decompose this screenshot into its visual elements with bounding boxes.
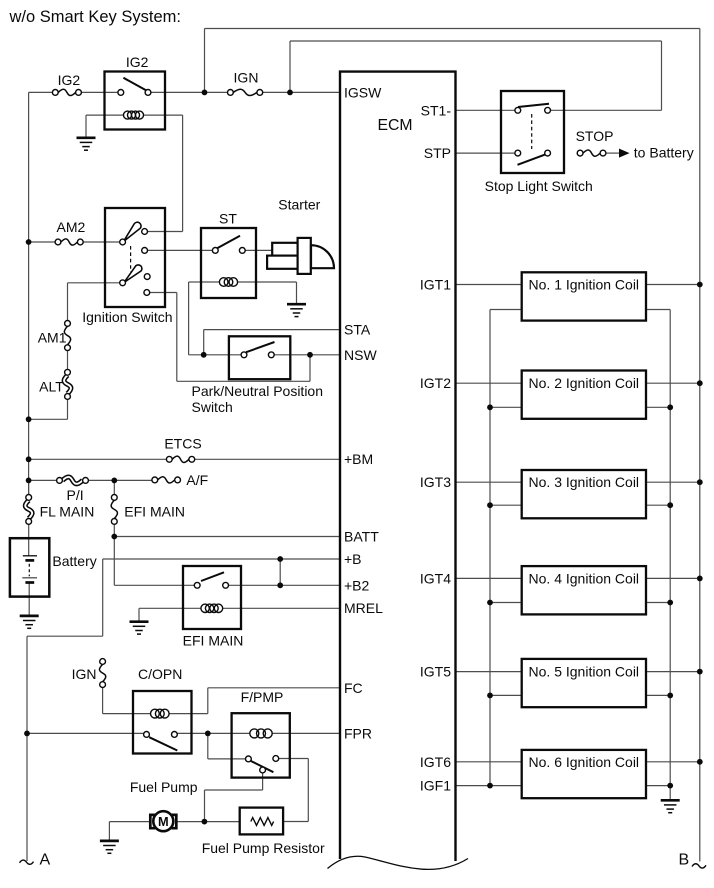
wire top loop from IGN junction to right bus [205, 29, 700, 93]
svg-text:No. 4 Ignition Coil: No. 4 Ignition Coil [529, 570, 640, 586]
label No. 3 Ignition Coil [529, 474, 640, 490]
svg-text:IGN: IGN [234, 70, 259, 86]
wire main IG line y=92 [29, 91, 339, 93]
wire AM1 to ALT [67, 351, 69, 370]
ignition switch lower contacts [120, 274, 150, 296]
wire ECM ST1- to Stop Light Switch [456, 109, 516, 111]
svg-text:IGT6: IGT6 [420, 754, 451, 770]
svg-text:IGT2: IGT2 [420, 375, 451, 391]
wire +B2 line [114, 584, 339, 586]
Ignition Switch box [105, 208, 165, 307]
ECM pin NSW [344, 347, 377, 363]
ECM pin MREL [344, 600, 383, 616]
ECM pin IGT2 [420, 375, 451, 391]
junction IGN right [287, 90, 293, 96]
ECM pin IGT4 [420, 570, 451, 586]
svg-text:FL MAIN: FL MAIN [40, 504, 95, 520]
ECM pin IGT1 [420, 277, 451, 293]
label fuse AM2 [57, 219, 86, 235]
label IG2 relay [126, 54, 149, 70]
label node B [679, 852, 690, 869]
C/OPN relay box [133, 691, 192, 754]
junction IGF bus coil 2 [487, 404, 493, 410]
junction right bus IGT1 [697, 282, 703, 288]
label fuse IG2 [58, 72, 81, 88]
wire IGN-fuse branch up to ST1- loop [290, 41, 662, 110]
svg-text:No. 3 Ignition Coil: No. 3 Ignition Coil [529, 474, 640, 490]
wire STOP fuse to arrow [606, 152, 620, 154]
wire No.3 coil to right bus [646, 481, 700, 483]
svg-text:Park/Neutral Position: Park/Neutral Position [192, 383, 324, 399]
svg-text:IGT5: IGT5 [420, 664, 451, 680]
wire ECM IGT4 to No.4 coil [456, 577, 522, 579]
svg-text:Ignition Switch: Ignition Switch [82, 309, 172, 325]
dashed link stop light switch [531, 114, 533, 149]
junction right bus IGT6 [697, 759, 703, 765]
stop light switch upper pole ST1- [515, 104, 551, 113]
svg-text:w/o Smart Key System:: w/o Smart Key System: [9, 8, 181, 26]
label node A [40, 852, 51, 869]
svg-text:IGN: IGN [72, 666, 97, 682]
wire fuel pump to resistor [177, 821, 239, 823]
svg-text:IGT3: IGT3 [420, 474, 451, 490]
fuse IGN top [228, 89, 263, 95]
junction ETCS [26, 456, 32, 462]
label Starter [278, 197, 320, 213]
ST relay coil [219, 278, 237, 287]
ECM pin STP [424, 145, 451, 161]
label No. 4 Ignition Coil [529, 570, 640, 586]
wire ECM IGT5 to No.5 coil [456, 671, 522, 673]
F/PMP relay coil [250, 729, 272, 738]
svg-text:ST1-: ST1- [421, 102, 452, 118]
wire ECM IGT3 to No.3 coil [456, 481, 522, 483]
wire EFI MAIN relay coil to ground [139, 608, 201, 620]
svg-text:FPR: FPR [344, 725, 372, 741]
F/PMP relay box [232, 713, 290, 777]
ECM pin +B [344, 551, 362, 567]
EFI MAIN relay switch [194, 572, 228, 588]
wire ST coil left to STA node [189, 282, 242, 355]
junction IGN left [202, 90, 208, 96]
svg-text:IGSW: IGSW [344, 84, 382, 100]
label EFI MAIN relay [183, 632, 244, 648]
title w/o Smart Key System [9, 8, 181, 26]
dashed link ignition switch [130, 246, 132, 272]
wire EFI MAIN fuse drop [113, 480, 115, 494]
wire ECM STP to Stop Light Switch [456, 152, 516, 154]
stop light switch lower pole STP [515, 150, 551, 165]
fuse EFI MAIN [111, 495, 117, 525]
label fuse EFI MAIN [124, 504, 185, 520]
ECM pin +BM [344, 451, 373, 467]
ECM pin FC [344, 680, 363, 696]
junction after C/OPN [205, 731, 211, 737]
svg-text:ECM: ECM [377, 117, 412, 134]
wire ignition switch to ST relay [148, 249, 213, 251]
label C/OPN [138, 666, 182, 682]
label fuse AM1 [38, 329, 67, 345]
No. 5 Ignition Coil box [522, 659, 646, 707]
wire IGN fuse to C/OPN coil [103, 688, 151, 714]
junction P/I left [26, 478, 32, 484]
svg-text:EFI MAIN: EFI MAIN [183, 632, 244, 648]
fuse IGN lower [99, 659, 105, 688]
node A break [20, 860, 34, 864]
svg-text:No. 1 Ignition Coil: No. 1 Ignition Coil [529, 277, 640, 293]
label No. 5 Ignition Coil [529, 664, 640, 680]
IG2 relay coil [124, 111, 144, 119]
node B break [692, 864, 706, 868]
fuel pump resistor box [240, 808, 283, 835]
ECM pin ST1- [421, 102, 452, 118]
wire No.2 coil to right bus [646, 382, 700, 384]
junction A/F branch [111, 478, 117, 484]
wire battery feed [28, 524, 30, 556]
wire IG2 coil left to ground [86, 115, 123, 136]
wire EFI MAIN fuse to BATT and +B2 [113, 524, 115, 585]
junction IGF bus coil 6 [487, 783, 493, 789]
junction +B [277, 556, 283, 562]
wire F/PMP switch feed [208, 733, 246, 759]
wire ECM IGT1 to No.1 coil [456, 284, 522, 286]
ground EFI MAIN relay [130, 622, 149, 634]
svg-text:Battery: Battery [52, 553, 96, 569]
junction fuel line left [24, 731, 30, 737]
wire coil ground bus [669, 310, 671, 800]
ignition switch lower wedge ST [124, 265, 142, 283]
svg-text:Starter: Starter [278, 197, 320, 213]
wire ignition switch AM1 branch [68, 283, 120, 321]
junction ALT bus [26, 416, 32, 422]
wire No.1 coil to right bus [646, 284, 700, 286]
wire park/neutral switch to ECM NSW [274, 354, 339, 356]
fuse FL MAIN [25, 495, 32, 525]
svg-text:EFI MAIN: EFI MAIN [124, 504, 185, 520]
C/OPN relay switch [144, 732, 178, 751]
svg-text:IGT4: IGT4 [420, 570, 451, 586]
ST relay box [201, 228, 256, 298]
label ST [219, 211, 237, 227]
svg-text:STA: STA [344, 322, 371, 338]
label Park/Neutral Position Switch [192, 383, 324, 415]
junction right bus IGT2 [697, 380, 703, 386]
junction +B2 [277, 582, 283, 588]
label Stop Light Switch [485, 178, 593, 194]
wire ST relay to starter [245, 249, 272, 251]
wire BATT line [114, 536, 339, 538]
wire F/PMP contact to resistor [279, 759, 309, 822]
svg-text:AM2: AM2 [57, 219, 86, 235]
svg-text:FC: FC [344, 680, 363, 696]
arrow to Battery [620, 149, 629, 157]
wire ECM IGT2 to No.2 coil [456, 382, 522, 384]
junction IGF bus coil 3 [487, 502, 493, 508]
wire No.1 coil IGF pin [490, 309, 522, 311]
label fuse P/I [67, 487, 84, 503]
ECM pin IGT3 [420, 474, 451, 490]
ground battery [20, 616, 39, 628]
No. 6 Ignition Coil box [522, 750, 646, 798]
svg-text:AM1: AM1 [38, 329, 67, 345]
svg-text:A/F: A/F [186, 472, 208, 488]
ignition switch upper contacts [120, 229, 148, 254]
wire +B to +B2 link [279, 559, 281, 585]
svg-text:MREL: MREL [344, 600, 383, 616]
svg-text:IGF1: IGF1 [420, 778, 451, 794]
junction NSW node [307, 352, 313, 358]
junction ground bus coil 4 [667, 600, 673, 606]
ECM pin BATT [344, 529, 379, 545]
label ECM [377, 117, 412, 134]
junction ground bus coil 6 [667, 783, 673, 789]
svg-text:Fuel Pump Resistor: Fuel Pump Resistor [202, 840, 325, 856]
label fuse IGN [234, 70, 259, 86]
label Battery [52, 553, 96, 569]
fuse ALT [64, 369, 71, 399]
junction IGF bus coil 4 [487, 600, 493, 606]
junction right bus IGT5 [697, 669, 703, 675]
svg-text:B: B [679, 852, 690, 869]
label Ignition Switch [82, 309, 172, 325]
wire left bus to FL MAIN [28, 480, 30, 494]
svg-text:M: M [158, 814, 169, 829]
label No. 2 Ignition Coil [529, 375, 640, 391]
wire No.3 coil ground pin [646, 504, 670, 506]
svg-text:+BM: +BM [344, 451, 373, 467]
ECM pin FPR [344, 725, 372, 741]
svg-text:IGT1: IGT1 [420, 277, 451, 293]
svg-text:+B2: +B2 [344, 577, 370, 593]
fuse STOP [577, 150, 606, 156]
wire No.5 coil IGF pin [490, 694, 522, 696]
wire No.1 coil ground pin [646, 309, 670, 311]
starter motor [267, 238, 334, 274]
svg-text:STP: STP [424, 145, 451, 161]
ECM pin STA [344, 322, 371, 338]
No. 3 Ignition Coil box [522, 470, 646, 518]
wire ETCS line to ECM +BM [29, 458, 339, 460]
wire right bus B [699, 29, 701, 862]
fuse IG2 [52, 89, 81, 95]
label fuse FL MAIN [40, 504, 95, 520]
junction pump node [202, 819, 208, 825]
fuel pump resistor element [251, 818, 274, 826]
wire +B line [103, 558, 339, 560]
svg-text:ALT: ALT [39, 379, 64, 395]
No. 1 Ignition Coil box [522, 272, 646, 320]
fuel pump motor [150, 811, 176, 831]
svg-text:P/I: P/I [67, 487, 84, 503]
wire No.5 coil to right bus [646, 671, 700, 673]
ECM pin IGT5 [420, 664, 451, 680]
svg-text:Fuel Pump: Fuel Pump [130, 779, 198, 795]
wire fuel pump to ground [109, 822, 149, 840]
wire battery to ground [28, 583, 30, 615]
wire No.6 coil ground pin [646, 785, 670, 787]
wire left bus [28, 92, 30, 494]
EFI MAIN relay box [183, 566, 241, 629]
IG2 relay box U-IG2 [105, 72, 166, 130]
fuse AM2 [55, 239, 83, 245]
ECM box [328, 72, 469, 870]
No. 2 Ignition Coil box [522, 371, 646, 419]
svg-text:IG2: IG2 [58, 72, 81, 88]
svg-text:to Battery: to Battery [634, 144, 694, 160]
fuse A/F [152, 477, 181, 483]
svg-text:No. 2 Ignition Coil: No. 2 Ignition Coil [529, 375, 640, 391]
No. 4 Ignition Coil box [522, 566, 646, 614]
fuse AM1 [64, 321, 70, 351]
wire EFI MAIN relay coil to ECM MREL [223, 607, 339, 609]
dashed battery center [28, 564, 30, 576]
fuse P/I [57, 477, 89, 484]
C/OPN relay coil [151, 709, 170, 718]
wire P/I A/F line [29, 479, 152, 481]
wire No.3 coil IGF pin [490, 504, 522, 506]
wire F/PMP common to pump line [205, 773, 263, 822]
ground IG2 relay [77, 138, 96, 150]
junction ground bus coil 3 [667, 502, 673, 508]
EFI MAIN relay coil [201, 604, 223, 612]
park/neutral switch arm [241, 342, 274, 358]
battery box [10, 538, 49, 596]
svg-text:No. 6 Ignition Coil: No. 6 Ignition Coil [529, 754, 640, 770]
svg-text:No. 5 Ignition Coil: No. 5 Ignition Coil [529, 664, 640, 680]
ST relay switch [212, 236, 245, 254]
Park/Neutral Position Switch box [229, 336, 290, 379]
junction ground bus coil 5 [667, 693, 673, 699]
junction BATT [111, 534, 117, 540]
svg-text:F/PMP: F/PMP [241, 689, 284, 705]
fuse ETCS [166, 456, 194, 462]
wire ECM IGF1 [456, 785, 491, 787]
wire +B down to fuel line [27, 559, 103, 861]
junction AM2 [26, 239, 32, 245]
ground ignition coils [661, 800, 680, 812]
wire STA node to ECM STA [204, 330, 339, 355]
ground fuel pump [100, 841, 119, 853]
ECM pin IGF1 [420, 778, 451, 794]
svg-text:Stop Light Switch: Stop Light Switch [485, 178, 593, 194]
junction right bus IGT3 [697, 479, 703, 485]
battery plates [22, 556, 37, 583]
junction STA node [201, 352, 207, 358]
label fuse IGN lower [72, 666, 97, 682]
junction IGF bus coil 5 [487, 693, 493, 699]
Stop Light Switch box [501, 91, 564, 173]
label fuse A/F [186, 472, 208, 488]
svg-text:A: A [40, 852, 51, 869]
label F/PMP [241, 689, 284, 705]
label fuse ALT [39, 379, 64, 395]
ground starter [287, 304, 306, 316]
wire ALT to left bus [29, 399, 68, 419]
wire AM2 line [29, 241, 120, 243]
wire No.4 coil to right bus [646, 577, 700, 579]
IG2 relay switch [118, 78, 151, 96]
svg-text:Switch: Switch [192, 399, 233, 415]
wire C/OPN coil to ECM FC [169, 688, 339, 714]
wire No.4 coil IGF pin [490, 602, 522, 604]
label No. 1 Ignition Coil [529, 277, 640, 293]
label fuse ETCS [164, 436, 201, 452]
wire ST coil right to ground [237, 282, 296, 303]
svg-text:+B: +B [344, 551, 362, 567]
wire No.5 coil ground pin [646, 694, 670, 696]
F/PMP relay switch [246, 756, 279, 773]
junction right bus IGT4 [697, 576, 703, 582]
wire No.6 coil IGF pin [490, 785, 522, 787]
wire IG2 coil right to ignition switch [144, 115, 183, 231]
wire IGF bus [489, 310, 491, 786]
wire No.2 coil ground pin [646, 406, 670, 408]
svg-text:IG2: IG2 [126, 54, 149, 70]
wire No.6 coil to right bus [646, 761, 700, 763]
wire ECM IGT6 to No.6 coil [456, 761, 522, 763]
wire ignition switch ST contact loop to NSW node [150, 293, 310, 382]
svg-text:NSW: NSW [344, 347, 377, 363]
svg-text:C/OPN: C/OPN [138, 666, 182, 682]
ignition switch upper wedge AM2 [124, 222, 142, 241]
svg-text:ETCS: ETCS [164, 436, 201, 452]
ECM pin +B2 [344, 577, 370, 593]
wire No.4 coil ground pin [646, 602, 670, 604]
ECM pin IGSW [344, 84, 382, 100]
svg-text:BATT: BATT [344, 529, 379, 545]
svg-text:STOP: STOP [576, 128, 614, 144]
label Fuel Pump Resistor [202, 840, 325, 856]
wire No.2 coil IGF pin [490, 406, 522, 408]
ECM pin IGT6 [420, 754, 451, 770]
label fuse STOP [576, 128, 614, 144]
wire fuel pump main line [27, 732, 339, 734]
label to Battery [634, 144, 694, 160]
junction ground bus coil 2 [667, 404, 673, 410]
label No. 6 Ignition Coil [529, 754, 640, 770]
label Fuel Pump [130, 779, 198, 795]
svg-text:ST: ST [219, 211, 237, 227]
